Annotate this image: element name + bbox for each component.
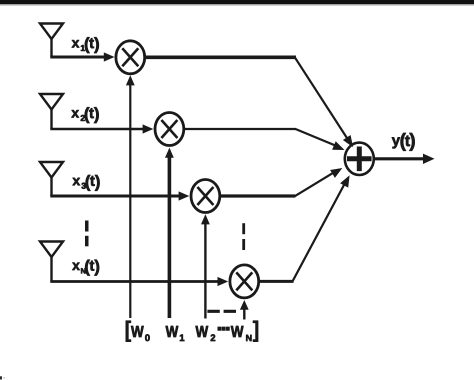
summer S	[345, 143, 374, 175]
arrowhead into MN	[218, 277, 229, 286]
antenna A1	[40, 24, 63, 58]
corner speck	[0, 376, 2, 379]
weight wire w2	[201, 214, 210, 318]
wire x3 feed	[50, 195, 179, 198]
multiplier MN	[230, 265, 259, 298]
multiplier M3	[191, 180, 220, 213]
wire x2 feed	[50, 128, 143, 131]
multiplier M1	[116, 41, 145, 74]
label x2(t)	[71, 107, 98, 123]
wire M3 to summer	[220, 168, 343, 196]
arrowhead into M3	[179, 191, 190, 200]
antenna A2	[40, 94, 63, 129]
dashed wire to wN	[207, 310, 236, 313]
arrowhead into M2	[143, 124, 154, 133]
wire M1 to summer	[145, 57, 354, 147]
weight vector label	[126, 321, 258, 342]
output wire	[375, 154, 435, 164]
antenna A3	[40, 162, 63, 196]
label xN(t)	[72, 260, 99, 276]
wire x1 feed	[50, 56, 105, 59]
weight arrow wN	[240, 300, 249, 320]
weight wire w0	[126, 75, 135, 318]
weight wire w1	[165, 148, 174, 318]
label x1(t)	[72, 37, 99, 53]
wire xN feed	[50, 280, 218, 283]
multiplier M2	[155, 113, 184, 146]
label x3(t)	[73, 175, 100, 191]
dots between A3 and AN	[85, 221, 89, 247]
dots above MN	[242, 223, 245, 250]
antenna AN	[40, 242, 63, 282]
label y(t)	[392, 133, 415, 151]
arrowhead into M1	[104, 52, 115, 61]
wire MN to summer	[259, 175, 350, 281]
wire M2 to summer	[184, 129, 345, 150]
top border bar	[0, 0, 474, 4]
